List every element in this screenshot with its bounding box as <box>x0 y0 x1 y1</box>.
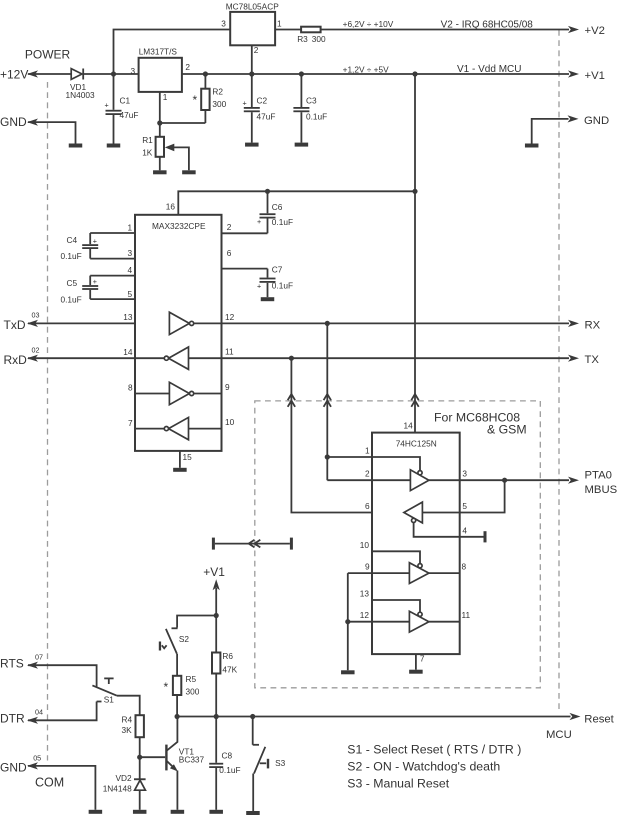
pin 1 MAX3232 <box>90 222 135 233</box>
wire TX to 74HC125 pin 6 <box>291 358 404 512</box>
pin 10 74HC125 <box>360 540 420 564</box>
ground S3 <box>246 811 260 815</box>
capacitor C6 0.1uF <box>257 191 293 233</box>
svg-text:4: 4 <box>462 525 467 535</box>
ground GND left <box>69 144 83 148</box>
svg-text:+: + <box>257 281 261 290</box>
switch S3 <box>253 717 286 774</box>
svg-text:LM317T/S: LM317T/S <box>139 46 178 56</box>
label POWER <box>25 47 71 61</box>
wire raw supply up to 78L05 input <box>114 30 231 75</box>
svg-text:15: 15 <box>183 452 193 462</box>
svg-text:+6,2V ÷ +10V: +6,2V ÷ +10V <box>343 19 394 29</box>
svg-text:COM: COM <box>35 776 64 790</box>
node junction at C1 <box>111 71 116 76</box>
svg-text:1: 1 <box>163 92 168 102</box>
svg-text:PTA0: PTA0 <box>585 470 612 482</box>
buffer G2 74HC125 <box>404 502 423 523</box>
wire MAX3232 pin16 supply <box>178 191 415 215</box>
node C3 <box>299 71 304 76</box>
svg-text:+: + <box>257 217 261 226</box>
pin 1 74HC125 <box>327 445 420 470</box>
port +V1 arrow <box>203 565 225 616</box>
svg-text:R4: R4 <box>122 715 133 725</box>
port GND right <box>532 115 609 144</box>
transistor VT1 BC337 <box>165 717 204 810</box>
pin 15 MAX3232 <box>180 451 192 468</box>
svg-text:11: 11 <box>225 347 234 357</box>
svg-text:10: 10 <box>225 417 235 427</box>
wire TxD to pin 13 <box>28 322 135 324</box>
pin 7 74HC125 <box>416 653 425 669</box>
pin 5 74HC125 <box>422 480 504 512</box>
svg-text:VD2: VD2 <box>116 773 133 783</box>
pin 1 78L05 <box>277 18 282 28</box>
label +6,2V - +10V <box>343 19 394 29</box>
svg-text:07: 07 <box>35 653 43 662</box>
potentiometer R1 1K <box>142 123 189 170</box>
ground MAX3232 pin15 <box>173 468 187 472</box>
dashed separator left (PC connector side) <box>47 82 49 761</box>
svg-text:0.1uF: 0.1uF <box>61 251 82 261</box>
pin 6 MAX3232 <box>222 248 268 269</box>
wire base VT1 <box>140 756 166 758</box>
ground R1 wiper <box>182 170 196 174</box>
port TX <box>568 354 599 366</box>
port GND left top <box>0 115 76 144</box>
wire RX to 74HC125 pins 1,2 <box>326 323 328 480</box>
node R6 C8 <box>214 714 219 719</box>
svg-text:R2: R2 <box>212 86 223 96</box>
svg-text:+1,2V ÷ +5V: +1,2V ÷ +5V <box>343 64 390 74</box>
capacitor C1 47uF <box>105 74 139 144</box>
node V+ feed MAX3232 <box>412 189 417 194</box>
svg-text:GND: GND <box>0 115 27 129</box>
port +V2 <box>568 25 605 37</box>
legend S1 S2 S3 <box>347 742 521 790</box>
pin 3 LM317 <box>131 66 136 76</box>
svg-text:8: 8 <box>128 382 133 392</box>
svg-text:R1: R1 <box>142 135 153 145</box>
svg-text:14: 14 <box>123 347 133 357</box>
buffer G1 74HC125 <box>410 470 429 491</box>
resistor R2 300 <box>193 74 227 123</box>
wire RxD to pin 14 <box>28 357 135 359</box>
wire TX line <box>222 357 570 359</box>
svg-text:8: 8 <box>462 562 467 572</box>
pin 3 MAX3232 <box>90 248 135 259</box>
regulator U3 MC78L05ACP <box>226 1 280 45</box>
wire S2 to R5 <box>176 654 178 676</box>
svg-text:S1 - Select Reset ( RTS / DTR: S1 - Select Reset ( RTS / DTR ) <box>347 742 521 756</box>
link stub cable separation <box>212 538 293 550</box>
ground 74HC125 pin 7 <box>409 670 423 674</box>
svg-text:47K: 47K <box>222 665 237 675</box>
pin 3 78L05 <box>221 19 226 29</box>
buffer G4 74HC125 <box>409 611 429 632</box>
svg-text:S3: S3 <box>275 758 286 768</box>
port RX <box>568 319 601 331</box>
svg-text:03: 03 <box>32 311 40 320</box>
driver T2 MAX3232 <box>135 382 222 404</box>
node V1 drop <box>412 71 417 76</box>
svg-text:C1: C1 <box>120 96 131 106</box>
svg-text:300: 300 <box>212 99 226 109</box>
pin 9 74HC125 <box>348 562 410 574</box>
pin 2 74HC125 <box>327 469 410 481</box>
receiver R2 MAX3232 <box>135 417 222 439</box>
svg-text:MAX3232CPE: MAX3232CPE <box>152 221 206 231</box>
switch S1 <box>92 678 117 704</box>
svg-text:C8: C8 <box>222 751 233 761</box>
ground C7 <box>261 297 275 301</box>
pin 8 MAX3232 <box>128 382 133 392</box>
svg-text:RTS: RTS <box>0 657 24 671</box>
svg-text:+12V: +12V <box>0 68 28 82</box>
svg-text:1: 1 <box>365 445 370 455</box>
port +V1 <box>568 70 605 82</box>
node R2 top <box>203 71 208 76</box>
label +1,2V - +5V <box>343 64 390 74</box>
svg-text:S3 - Manual Reset: S3 - Manual Reset <box>347 777 449 791</box>
capacitor C7 0.1uF <box>257 264 293 297</box>
svg-text:6: 6 <box>227 248 232 258</box>
svg-text:S2 - ON - Watchdog's death: S2 - ON - Watchdog's death <box>347 759 500 773</box>
port RxD 02 <box>4 345 40 367</box>
diode VD1 1N4003 <box>66 69 95 101</box>
pin 13 74HC125 <box>360 588 420 612</box>
wire pins 9,12 to ground <box>347 573 349 670</box>
resistor R6 47K <box>212 616 238 717</box>
svg-text:MBUS: MBUS <box>585 484 617 496</box>
wire S1 to R4 <box>117 696 140 716</box>
svg-text:4: 4 <box>128 265 133 275</box>
svg-text:BC337: BC337 <box>179 754 205 764</box>
pin 9 MAX3232 <box>225 382 230 392</box>
svg-text:C7: C7 <box>272 264 283 274</box>
resistor R4 3K <box>122 715 144 758</box>
svg-text:9: 9 <box>365 562 370 572</box>
capacitor C8 0.1uF <box>209 717 240 810</box>
junction arrows RX feed <box>324 394 331 407</box>
svg-text:R3: R3 <box>297 34 308 44</box>
svg-text:1N4148: 1N4148 <box>103 784 132 794</box>
wire RX line <box>222 322 570 324</box>
svg-text:POWER: POWER <box>25 47 71 61</box>
svg-text:2: 2 <box>227 222 232 232</box>
svg-text:0.1uF: 0.1uF <box>272 280 293 290</box>
ground C1 <box>107 144 121 148</box>
svg-text:V2 - IRQ 68HC05/08: V2 - IRQ 68HC05/08 <box>441 19 534 30</box>
wire VD1 to node <box>84 73 139 75</box>
ground C2 <box>245 143 258 147</box>
driver T1 MAX3232 <box>169 312 221 334</box>
dashed separator right (MCU side) <box>558 30 560 713</box>
wire Reset rail <box>177 716 570 718</box>
capacitor C3 0.1uF <box>293 74 327 143</box>
svg-text:5: 5 <box>462 501 467 511</box>
receiver R1 MAX3232 <box>135 347 222 369</box>
svg-text:47uF: 47uF <box>257 111 276 121</box>
svg-text:14: 14 <box>404 421 414 431</box>
pin 5 MAX3232 <box>90 289 135 299</box>
svg-text:1: 1 <box>277 18 282 28</box>
svg-text:13: 13 <box>123 312 133 322</box>
svg-text:6: 6 <box>365 501 370 511</box>
pin 6 74HC125 <box>365 501 370 511</box>
svg-text:TX: TX <box>585 354 600 366</box>
wire S3 to ground <box>252 774 254 812</box>
node TX to gate <box>289 356 294 361</box>
pin 16 MAX3232 <box>166 202 176 212</box>
svg-text:+: + <box>243 99 247 108</box>
svg-text:1: 1 <box>128 222 133 232</box>
junction arrows V1 feed <box>411 394 418 407</box>
wire 78L05 out to R3 <box>275 29 301 31</box>
port RTS 07 <box>0 653 43 671</box>
svg-text:10: 10 <box>360 540 370 550</box>
svg-text:Reset: Reset <box>584 713 614 725</box>
wire R2 bottom to LM317 adj <box>160 122 206 124</box>
node pin1 tap <box>325 454 330 459</box>
svg-text:04: 04 <box>35 708 43 717</box>
wire V1 to 74HC125 pin14 <box>414 74 416 433</box>
junction arrows TX feed <box>288 394 295 407</box>
ground C3 <box>295 143 309 147</box>
node pin 12 tap <box>345 619 350 624</box>
svg-text:+V1: +V1 <box>203 565 225 579</box>
IC U4 74HC125N <box>372 433 460 654</box>
ground COM <box>89 810 103 814</box>
svg-text:47uF: 47uF <box>120 110 139 120</box>
pin 8 74HC125 <box>429 562 467 574</box>
svg-text:RxD: RxD <box>4 353 28 367</box>
pin 3 74HC125 <box>429 469 569 481</box>
port Reset <box>570 713 615 725</box>
node R5 collector <box>175 714 180 719</box>
switch S2 <box>159 628 190 654</box>
node PTA0 <box>502 478 507 483</box>
svg-text:12: 12 <box>225 312 235 322</box>
node C6 top <box>265 189 270 194</box>
port +12V <box>0 68 38 82</box>
ground R1 body <box>153 170 167 174</box>
svg-text:3: 3 <box>462 469 467 479</box>
svg-text:C4: C4 <box>67 235 78 245</box>
svg-text:16: 16 <box>166 202 176 212</box>
node LM317 adj <box>157 120 162 125</box>
wire C6 to pin 2 <box>222 232 268 234</box>
pin 2 LM317 <box>185 62 190 72</box>
svg-text:R6: R6 <box>222 651 233 661</box>
svg-text:3K: 3K <box>122 725 133 735</box>
pin 4 MAX3232 <box>90 265 135 276</box>
wire V1 rail <box>182 73 569 75</box>
node 78L05 pin2 / C2 <box>249 71 254 76</box>
dashed box For MC68HC08 & GSM <box>255 401 541 688</box>
pin 14 74HC125 <box>404 421 414 431</box>
svg-text:*: * <box>193 93 198 107</box>
svg-text:GND: GND <box>584 115 609 127</box>
node R4 VD2 base <box>137 755 142 760</box>
svg-text:3: 3 <box>131 66 136 76</box>
ground GND right <box>525 144 539 148</box>
wire +12V rail <box>28 73 72 75</box>
svg-text:0.1uF: 0.1uF <box>272 217 293 227</box>
resistor R3 300 <box>297 27 326 44</box>
label MCU <box>546 729 572 741</box>
svg-text:GND: GND <box>0 760 27 774</box>
pin 1 LM317 <box>160 92 168 123</box>
terminator pin 4 <box>484 531 487 542</box>
label V2 - IRQ 68HC05/08 <box>441 19 534 30</box>
svg-text:0.1uF: 0.1uF <box>306 111 327 121</box>
svg-text:MC78L05ACP: MC78L05ACP <box>226 1 280 11</box>
svg-text:300: 300 <box>312 34 326 44</box>
wire +V1 to S2 <box>177 616 216 628</box>
svg-text:2: 2 <box>254 45 259 55</box>
pin 10 MAX3232 <box>225 417 235 427</box>
capacitor C2 47uF <box>243 74 276 143</box>
node +V1 split <box>214 613 219 618</box>
pin 14 MAX3232 <box>123 347 133 357</box>
svg-text:05: 05 <box>33 754 41 763</box>
pin 12 MAX3232 <box>225 312 235 322</box>
port DTR 04 <box>0 708 43 726</box>
pin 7 MAX3232 <box>128 418 133 428</box>
wire DTR to S1 <box>28 702 102 721</box>
svg-text:02: 02 <box>32 345 40 354</box>
svg-text:*: * <box>164 680 169 694</box>
resistor R5 300 <box>164 674 200 716</box>
svg-text:C5: C5 <box>67 278 78 288</box>
wire RTS to S1 <box>28 665 97 686</box>
svg-text:2: 2 <box>185 62 190 72</box>
capacitor C5 0.1uF <box>61 276 99 305</box>
svg-text:+V1: +V1 <box>585 70 605 82</box>
pin 2 MAX3232 <box>227 222 232 232</box>
svg-text:MCU: MCU <box>546 729 572 741</box>
port PTA0 MBUS <box>568 470 617 497</box>
svg-text:+: + <box>93 277 97 286</box>
pin 12 74HC125 <box>348 610 410 622</box>
svg-text:DTR: DTR <box>0 712 25 726</box>
IC U1 MAX3232CPE <box>135 215 222 451</box>
svg-text:TxD: TxD <box>4 318 26 332</box>
node RX to gate <box>325 321 330 326</box>
pin 13 MAX3232 <box>123 312 133 322</box>
pin 2 78L05 <box>252 45 259 74</box>
svg-text:& GSM: & GSM <box>487 423 527 437</box>
ground pins 9,12 <box>341 670 355 674</box>
svg-text:2: 2 <box>365 469 370 479</box>
ground VT1 emitter <box>171 810 185 814</box>
svg-text:7: 7 <box>128 418 133 428</box>
wire V2 rail <box>321 29 569 31</box>
ground C8 <box>209 810 223 814</box>
pin 11 74HC125 <box>429 610 471 622</box>
svg-text:7: 7 <box>420 653 425 663</box>
svg-text:12: 12 <box>360 610 370 620</box>
label For MC68HC08 & GSM <box>434 410 527 436</box>
svg-text:+V2: +V2 <box>585 25 605 37</box>
ground VD2 <box>133 810 147 814</box>
svg-text:R5: R5 <box>186 674 197 684</box>
svg-text:+: + <box>93 236 97 245</box>
capacitor C4 0.1uF <box>61 233 99 261</box>
regulator U2 LM317T/S <box>139 46 182 91</box>
svg-text:9: 9 <box>225 382 230 392</box>
port GND COM 05 <box>0 754 95 810</box>
svg-text:S1: S1 <box>104 695 115 705</box>
svg-text:3: 3 <box>128 248 133 258</box>
diode VD2 1N4148 <box>103 757 146 810</box>
svg-text:V1 - Vdd MCU: V1 - Vdd MCU <box>457 64 521 75</box>
svg-text:0.1uF: 0.1uF <box>219 765 240 775</box>
svg-text:S2: S2 <box>179 634 190 644</box>
svg-text:1K: 1K <box>142 148 153 158</box>
svg-text:C2: C2 <box>257 96 268 106</box>
svg-text:C3: C3 <box>306 96 317 106</box>
svg-text:13: 13 <box>360 588 370 598</box>
svg-text:+: + <box>105 101 109 110</box>
svg-text:3: 3 <box>221 19 226 29</box>
label V1 - Vdd MCU <box>457 64 521 75</box>
pin 4 74HC125 <box>414 523 484 537</box>
svg-text:RX: RX <box>585 319 601 331</box>
svg-text:0.1uF: 0.1uF <box>61 295 82 305</box>
svg-text:1N4003: 1N4003 <box>66 90 95 100</box>
svg-text:5: 5 <box>128 289 133 299</box>
buffer G3 74HC125 <box>409 563 429 584</box>
pin 11 MAX3232 <box>225 347 234 357</box>
svg-text:C6: C6 <box>272 202 283 212</box>
svg-text:74HC125N: 74HC125N <box>396 438 437 448</box>
svg-text:300: 300 <box>186 686 200 696</box>
node S3 tap <box>250 714 255 719</box>
port TxD 03 <box>4 311 40 333</box>
svg-text:11: 11 <box>462 610 471 620</box>
